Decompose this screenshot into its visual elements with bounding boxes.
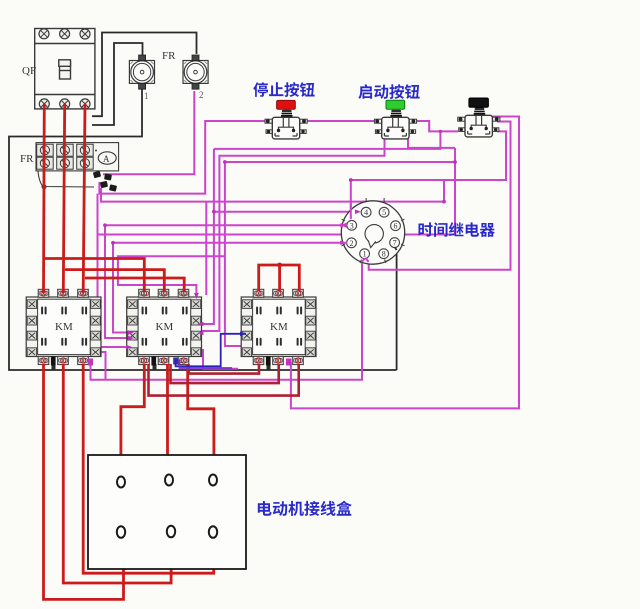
- svg-text:7: 7: [393, 239, 397, 248]
- svg-text:6: 6: [394, 222, 398, 231]
- svg-text:QF: QF: [22, 65, 36, 77]
- svg-text:FR: FR: [162, 50, 176, 62]
- svg-text:5: 5: [382, 208, 386, 217]
- svg-text:FR: FR: [20, 153, 34, 165]
- svg-text:2: 2: [350, 239, 354, 248]
- svg-text:2: 2: [199, 90, 204, 100]
- svg-text:8: 8: [382, 250, 386, 259]
- svg-text:4: 4: [364, 208, 368, 217]
- svg-text:1: 1: [363, 250, 367, 259]
- svg-text:A: A: [103, 154, 110, 164]
- svg-text:3: 3: [350, 221, 354, 230]
- svg-text:1: 1: [144, 91, 149, 101]
